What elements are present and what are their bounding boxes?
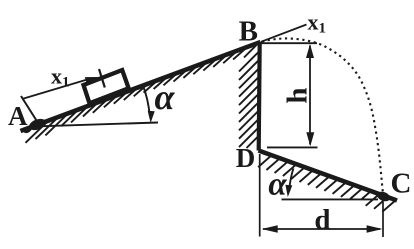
d arrow left (262, 225, 278, 233)
incline surface A-B (21, 42, 261, 131)
x1 dimension arrowhead (85, 77, 99, 84)
alpha-A horizontal reference line (39, 123, 158, 127)
x1 dimension line (22, 78, 91, 99)
svg-text:A: A (8, 101, 28, 131)
h dimension line (309, 46, 311, 145)
svg-text:α: α (268, 167, 287, 203)
hatching on cliff face (239, 46, 260, 149)
alpha-C arc arrowhead (285, 185, 292, 197)
alpha-C horizontal reference line (282, 198, 379, 200)
hatching under incline AB (26, 46, 249, 143)
point C dot (376, 190, 392, 203)
cliff wall B-D (259, 42, 260, 151)
svg-text:D: D (236, 143, 256, 173)
svg-text:h: h (282, 87, 314, 103)
point A dot (28, 117, 48, 132)
svg-text:B: B (239, 16, 258, 48)
x1 extension tick at block (99, 69, 105, 88)
alpha-A angle arc (143, 86, 150, 116)
h bottom tick (267, 146, 318, 148)
block on incline (84, 70, 129, 103)
svg-text:C: C (391, 168, 412, 200)
d left extension line (259, 154, 261, 237)
h top reference line (261, 42, 317, 44)
alpha-A arc arrowhead (148, 111, 155, 123)
hatching under incline DC (258, 155, 396, 212)
x1 direction line from B (261, 25, 307, 42)
d right extension line (382, 202, 384, 237)
d arrow right (367, 225, 383, 233)
x1 extension tick at A (21, 96, 37, 121)
trajectory dotted curve B to C (262, 38, 383, 191)
alpha-C angle arc (289, 168, 293, 191)
d dimension line (263, 228, 380, 230)
svg-text:α: α (155, 77, 176, 117)
h arrow down (306, 132, 314, 146)
h arrow up (306, 44, 314, 58)
incline surface D-C (259, 151, 398, 201)
svg-text:d: d (314, 204, 330, 236)
